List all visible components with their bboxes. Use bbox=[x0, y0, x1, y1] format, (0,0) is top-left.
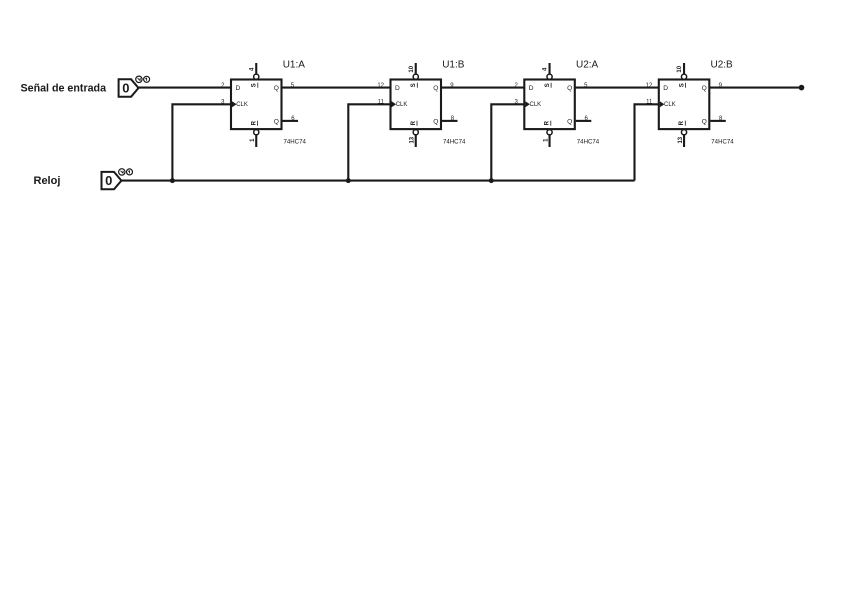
svg-text:U1:A: U1:A bbox=[283, 60, 306, 71]
wire: U2:B Q output bbox=[709, 87, 801, 89]
U2:B Q-bar stub wire bbox=[710, 120, 726, 122]
svg-text:CLK: CLK bbox=[664, 102, 676, 108]
terminal tag outline (Señal de entrada) bbox=[119, 79, 139, 96]
svg-text:S: S bbox=[411, 83, 417, 87]
U2:A reset stub wire (pin 1) bbox=[548, 135, 550, 147]
toggle button (decrement) of Señal de entrada bbox=[136, 76, 142, 82]
svg-text:CLK: CLK bbox=[396, 102, 408, 108]
svg-text:CLK: CLK bbox=[530, 102, 542, 108]
svg-text:10: 10 bbox=[409, 65, 415, 72]
svg-text:S: S bbox=[252, 83, 258, 87]
U1:B reset bubble bbox=[413, 130, 418, 135]
junction: clock bus at U1:B riser bbox=[346, 178, 351, 183]
svg-text:Q: Q bbox=[433, 85, 438, 92]
svg-text:R: R bbox=[251, 120, 257, 125]
wire: clock riser to U1:B CLK bbox=[348, 104, 390, 180]
svg-text:0: 0 bbox=[105, 173, 112, 188]
U1:B set bubble bbox=[413, 74, 418, 79]
svg-text:Señal de entrada: Señal de entrada bbox=[21, 83, 108, 95]
logic-state input terminal "Reloj" bbox=[102, 169, 133, 190]
svg-text:4: 4 bbox=[543, 67, 549, 71]
svg-text:1: 1 bbox=[543, 138, 549, 142]
U1:B set stub wire (pin 10) bbox=[415, 63, 417, 74]
svg-text:12: 12 bbox=[646, 83, 653, 89]
svg-text:R: R bbox=[545, 120, 551, 125]
toggle button (decrement) of Reloj bbox=[119, 169, 125, 175]
terminal tag outline (Reloj) bbox=[102, 172, 122, 189]
svg-text:Q: Q bbox=[567, 85, 572, 92]
svg-text:10: 10 bbox=[677, 65, 683, 72]
svg-text:D: D bbox=[236, 85, 241, 92]
svg-text:74HC74: 74HC74 bbox=[711, 139, 734, 146]
U1:A set bubble bbox=[254, 74, 259, 79]
U2:A Q-bar stub wire bbox=[576, 120, 592, 122]
node: output wire end dot bbox=[799, 85, 805, 91]
U1:B CLK edge triangle bbox=[392, 101, 397, 107]
svg-text:0: 0 bbox=[122, 80, 129, 95]
svg-text:11: 11 bbox=[646, 100, 653, 106]
svg-text:Q: Q bbox=[702, 118, 707, 125]
svg-text:1: 1 bbox=[250, 138, 256, 142]
flip-flop U1:A (74HC74 D-type) bbox=[221, 60, 306, 148]
U2:B reset bubble bbox=[681, 130, 686, 135]
svg-text:D: D bbox=[663, 85, 668, 92]
svg-text:D: D bbox=[529, 85, 534, 92]
svg-text:R: R bbox=[411, 120, 417, 125]
svg-text:74HC74: 74HC74 bbox=[443, 139, 466, 146]
svg-text:11: 11 bbox=[378, 100, 385, 106]
svg-text:U2:B: U2:B bbox=[711, 60, 734, 71]
U1:A reset stub wire (pin 1) bbox=[255, 135, 257, 147]
U2:A set bubble bbox=[547, 74, 552, 79]
wire: clock riser to U2:B CLK bbox=[635, 104, 659, 180]
svg-text:Q: Q bbox=[433, 118, 438, 125]
U1:A Q-bar stub wire bbox=[283, 120, 299, 122]
U2:A set stub wire (pin 4) bbox=[548, 63, 550, 74]
U2:B set bubble bbox=[681, 74, 686, 79]
svg-text:Q: Q bbox=[274, 118, 279, 125]
svg-text:Reloj: Reloj bbox=[34, 175, 61, 187]
flip-flop U2:A (74HC74 D-type) bbox=[514, 60, 599, 148]
U1:B reset stub wire (pin 13) bbox=[415, 135, 417, 147]
svg-text:13: 13 bbox=[410, 136, 416, 143]
svg-text:74HC74: 74HC74 bbox=[577, 139, 600, 146]
svg-text:Q: Q bbox=[567, 118, 572, 125]
U2:B body box bbox=[659, 80, 710, 130]
svg-text:S: S bbox=[545, 83, 551, 87]
logic-state input terminal "Señal de entrada" bbox=[119, 76, 150, 97]
svg-text:S: S bbox=[679, 83, 685, 87]
wire: U1:B Q to U2:A D bbox=[441, 87, 524, 89]
svg-text:D: D bbox=[395, 85, 400, 92]
U1:A CLK edge triangle bbox=[232, 101, 237, 107]
toggle button (increment) of Señal de entrada bbox=[144, 76, 150, 82]
svg-text:4: 4 bbox=[249, 67, 255, 71]
U1:A set stub wire (pin 4) bbox=[255, 63, 257, 74]
U2:B set stub wire (pin 10) bbox=[683, 63, 685, 74]
flip-flop U1:B (74HC74 D-type) bbox=[377, 60, 466, 148]
wire: Señal de entrada terminal to U1:A D bbox=[139, 87, 232, 89]
svg-text:R: R bbox=[679, 120, 685, 125]
flip-flop U2:B (74HC74 D-type) bbox=[646, 60, 735, 148]
svg-text:CLK: CLK bbox=[236, 102, 248, 108]
svg-text:U2:A: U2:A bbox=[576, 60, 599, 71]
U2:A reset bubble bbox=[547, 130, 552, 135]
U1:B body box bbox=[391, 80, 442, 130]
U1:B Q-bar stub wire bbox=[442, 120, 458, 122]
wire: clock riser to U1:A CLK bbox=[172, 104, 231, 180]
svg-text:13: 13 bbox=[678, 136, 684, 143]
U1:A body box bbox=[231, 80, 282, 130]
wire: clock bus from Reloj terminal bbox=[122, 180, 635, 182]
svg-text:12: 12 bbox=[377, 83, 384, 89]
U2:A body box bbox=[524, 80, 575, 130]
svg-text:74HC74: 74HC74 bbox=[284, 139, 307, 146]
svg-text:Q: Q bbox=[274, 85, 279, 92]
wire: U2:A Q to U2:B D bbox=[575, 87, 659, 89]
U2:B reset stub wire (pin 13) bbox=[683, 135, 685, 147]
wire: clock riser to U2:A CLK bbox=[491, 104, 524, 180]
U2:B CLK edge triangle bbox=[660, 101, 665, 107]
svg-text:Q: Q bbox=[702, 85, 707, 92]
junction: clock bus at U2:A riser bbox=[489, 178, 494, 183]
U2:A CLK edge triangle bbox=[525, 101, 530, 107]
junction: clock bus at U1:A riser bbox=[170, 178, 175, 183]
wire: U1:A Q to U1:B D bbox=[282, 87, 391, 89]
svg-text:U1:B: U1:B bbox=[442, 60, 465, 71]
U1:A reset bubble bbox=[254, 130, 259, 135]
toggle button (increment) of Reloj bbox=[127, 169, 133, 175]
